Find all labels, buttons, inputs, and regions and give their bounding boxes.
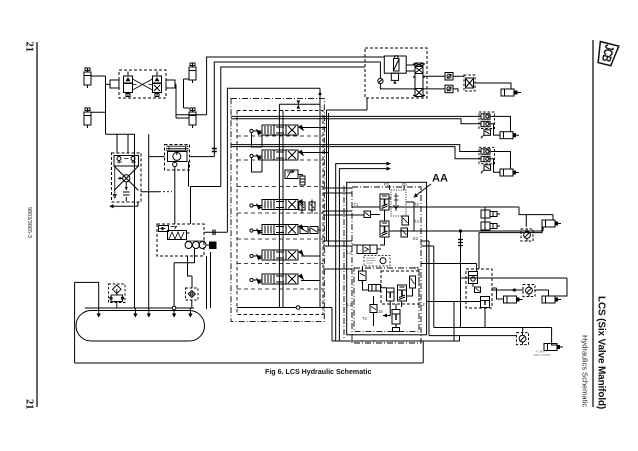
- node T4: [459, 229, 462, 232]
- restrictor 9: [364, 211, 371, 218]
- left rule: [36, 42, 38, 407]
- priority top ports: [114, 156, 139, 167]
- wire to ram B: [490, 152, 511, 173]
- priority flow divider: [114, 166, 139, 191]
- bottom ram: [544, 344, 563, 351]
- wire to breaker ram: [453, 76, 511, 92]
- row 4 aux symbols: [300, 227, 321, 234]
- row B-port stubs: [300, 128, 329, 281]
- pilot symbols 14: [394, 193, 399, 211]
- arrow 15: [383, 315, 390, 317]
- row 3 aux relief pair: [299, 200, 315, 214]
- restrictor 8: [402, 216, 409, 225]
- cartridge A: [398, 285, 407, 301]
- node row 4: [250, 229, 253, 232]
- wire pilot risers: [327, 98, 368, 246]
- P port stubs: [390, 185, 405, 190]
- cartridge B: [387, 288, 395, 301]
- JCB logo: [595, 42, 619, 67]
- wire priority exit left arrow: [111, 202, 138, 206]
- wire T2 to ram: [421, 207, 553, 220]
- line T lower A: [434, 327, 552, 329]
- hose coupling on pump line: [212, 149, 217, 152]
- wire pump right to supply: [189, 156, 214, 158]
- wire aux pair B: [231, 145, 481, 159]
- svg-text:L1: L1: [347, 302, 352, 307]
- priority inner left drain: [113, 166, 116, 198]
- AA leader line: [415, 184, 431, 196]
- valve row 5: [257, 250, 303, 260]
- suction loop left: [75, 282, 424, 363]
- node row 6: [250, 278, 253, 281]
- node on rail: [172, 306, 176, 310]
- bank gallery right: [279, 88, 320, 307]
- wire to ram A: [490, 116, 511, 135]
- svg-text:L3: L3: [347, 250, 352, 255]
- tank top rail: [85, 307, 194, 309]
- cartridge G: [392, 310, 400, 332]
- ram top right: [542, 220, 561, 227]
- dashed box set B: [479, 147, 495, 164]
- svg-text:T4: T4: [362, 316, 368, 321]
- solenoid valve body: [384, 56, 406, 84]
- wire shuttle down to tank: [174, 249, 194, 309]
- pilot check valve left: [124, 72, 133, 97]
- orifice ticks: [213, 230, 215, 236]
- wire T1b link: [323, 192, 352, 194]
- wire drop from T4: [460, 231, 462, 328]
- cartridge 7 horizontal: [369, 285, 381, 292]
- relief A below: [481, 130, 490, 139]
- tank arrows: [97, 308, 101, 318]
- wire left cylinders: [91, 76, 110, 134]
- wire priority to steer line: [141, 191, 159, 193]
- wire T3 to mid block: [421, 264, 477, 272]
- bank inner dashed box: [237, 111, 323, 315]
- wire to P2 feed: [336, 164, 388, 341]
- drop to bottom ram: [552, 328, 557, 346]
- dashed box spool assembly: [157, 224, 204, 256]
- valve on T4 line: [521, 229, 533, 241]
- svg-text:P1: P1: [402, 182, 408, 187]
- wire pump left to tank: [149, 157, 165, 308]
- dotted pilot box 14: [391, 190, 406, 216]
- label T-1890: [534, 350, 551, 358]
- inner dashed box lower: [381, 271, 419, 304]
- wire E2 stubs: [421, 241, 434, 336]
- restrictor 10: [401, 228, 408, 237]
- node row 5: [250, 254, 253, 257]
- return line long: [332, 340, 460, 342]
- line T lower B: [429, 335, 517, 337]
- svg-text:AA: AA: [432, 173, 448, 185]
- svg-text:LCS (Six Valve Manifold): LCS (Six Valve Manifold): [596, 296, 607, 409]
- ram mid A: [504, 296, 523, 303]
- cylinder ram top-right: [189, 63, 196, 83]
- restrictor C: [410, 276, 416, 288]
- shuttle circles: [185, 241, 206, 249]
- dashed box lock valve block: [119, 70, 166, 98]
- hose break symbol: [458, 240, 463, 246]
- wire down to priority valve: [106, 134, 149, 308]
- ram A: [500, 132, 519, 139]
- svg-text:P2: P2: [384, 182, 390, 187]
- priority relief bottom: [123, 182, 130, 201]
- tank body: [76, 311, 205, 342]
- cartridge E: [380, 194, 389, 210]
- coupling B: [445, 85, 453, 93]
- svg-text:L2: L2: [420, 302, 425, 307]
- valve row 2: [257, 150, 303, 160]
- wire T3 link: [323, 268, 352, 270]
- cartridge M1: [469, 272, 478, 288]
- inner chain box lower: [354, 268, 419, 331]
- loop up: [422, 341, 424, 363]
- drop to bottom valve: [522, 328, 524, 333]
- pump circle: [168, 152, 188, 162]
- port block right: [166, 80, 175, 88]
- ram mid B: [542, 296, 561, 303]
- AA dashed box: [352, 187, 421, 343]
- coupling block B2: [481, 156, 490, 161]
- spool pilot symbols: [159, 226, 177, 232]
- wire loop to mid block: [479, 227, 542, 269]
- dashed box set A: [479, 112, 495, 129]
- riser right: [459, 336, 461, 341]
- node row 2: [250, 154, 253, 157]
- coupling block B1: [481, 149, 490, 154]
- valve row 1: [257, 125, 303, 135]
- cylinder ram bottom-right: [189, 108, 196, 128]
- wire L3b link: [323, 214, 352, 216]
- svg-text:E2: E2: [413, 236, 419, 241]
- svg-text:Fig 6. LCS Hydraulic Schematic: Fig 6. LCS Hydraulic Schematic: [265, 368, 371, 376]
- port block left: [110, 80, 119, 88]
- svg-text:21: 21: [24, 42, 35, 53]
- check valve dashed: [464, 75, 475, 91]
- valve row 4: [257, 225, 303, 235]
- svg-text:T2: T2: [414, 202, 420, 207]
- port labels AA: [347, 182, 425, 321]
- svg-text:9803/3665-3: 9803/3665-3: [26, 207, 32, 238]
- wire spool drains to tank arc: [207, 252, 211, 309]
- bank bottom rail: [237, 307, 332, 309]
- ram B: [500, 169, 519, 176]
- valve row 6: [257, 274, 303, 284]
- spool section: [413, 63, 425, 97]
- bottom valve: [517, 333, 529, 345]
- svg-text:T3: T3: [414, 266, 420, 271]
- wire L1 link: [323, 240, 352, 242]
- wire right cylinders: [175, 79, 190, 118]
- coupling A: [445, 73, 453, 81]
- wire L3 link: [323, 210, 352, 212]
- wire to P1 feed: [339, 169, 388, 341]
- pilot check valve right: [153, 72, 162, 97]
- wire spool drain to check: [188, 256, 193, 288]
- coupling block A1: [481, 114, 490, 119]
- svg-text:Hydraulics Schematic: Hydraulics Schematic: [581, 335, 590, 407]
- dashed box mid block: [466, 269, 492, 308]
- wire P nest 1: [207, 57, 365, 115]
- coupler stubs: [485, 207, 500, 226]
- svg-text:T1: T1: [354, 202, 360, 207]
- pilot cross lines: [133, 79, 153, 90]
- svg-text:T4: T4: [414, 219, 420, 224]
- node row 3: [250, 204, 253, 207]
- valve row 3: [257, 200, 303, 210]
- AA outer chain edge: [343, 186, 345, 340]
- check valve to tank: [186, 288, 199, 308]
- wire pump down to spool valve: [175, 162, 221, 225]
- wire P nest 2: [214, 62, 365, 157]
- bank section dividers: [237, 136, 323, 289]
- unload valve mid: [285, 170, 305, 185]
- spool valve body: [168, 231, 190, 240]
- pump small port: [173, 162, 177, 166]
- right rule: [592, 40, 594, 407]
- manifold solid frame: [347, 182, 427, 334]
- pump top plate: [166, 146, 189, 150]
- wires mid block out: [492, 288, 549, 299]
- bank pilot arrow up: [318, 91, 322, 95]
- wire T4: [421, 215, 543, 231]
- wire aux right: [427, 278, 567, 341]
- cartridge M3: [481, 297, 490, 308]
- coupling block A2: [481, 121, 490, 126]
- wire P nest 3: [221, 67, 365, 187]
- restrictor M2: [475, 287, 481, 293]
- dashed box pump: [165, 145, 190, 171]
- dashed box H 115/29: [364, 256, 390, 267]
- wire spool right port: [204, 231, 227, 233]
- node row 1: [250, 129, 253, 132]
- relief B below: [481, 165, 490, 174]
- wire bank return down: [331, 308, 333, 342]
- svg-text:21: 21: [24, 399, 35, 410]
- coupler pair upper: [481, 210, 497, 218]
- node bank bottom: [296, 306, 300, 310]
- bank gallery line P: [278, 104, 280, 307]
- hammer ram: [501, 89, 521, 96]
- cylinder ram top-left: [84, 68, 91, 88]
- wire diverter to breaker couplings: [427, 76, 445, 89]
- cylinder ram bottom-left: [84, 108, 91, 128]
- wire T1 link: [323, 187, 352, 189]
- wire P nest 4: [227, 88, 320, 232]
- solenoid block black: [209, 242, 217, 250]
- bank gallery line T: [282, 111, 284, 308]
- valve mid out: [523, 285, 535, 297]
- bank outer chain box: [231, 99, 324, 322]
- dashed box priority valve: [112, 153, 142, 202]
- wire L1b link: [323, 245, 352, 247]
- wire aux pair A: [231, 116, 481, 123]
- cartridge D horizontal: [357, 245, 377, 254]
- AA internal wires: [352, 198, 421, 326]
- coupler pair lower: [481, 222, 497, 230]
- valve 12: [370, 302, 377, 316]
- dashed box diverter: [365, 48, 427, 98]
- wire stub nest1 to cylinders: [176, 114, 207, 116]
- wires inside diverter box: [365, 57, 427, 89]
- svg-text:(984-43/185): (984-43/185): [534, 353, 551, 357]
- cartridge F: [380, 221, 389, 237]
- valve 11: [359, 268, 367, 284]
- gauge circle: [378, 78, 383, 83]
- svg-text:15: 15: [378, 309, 383, 314]
